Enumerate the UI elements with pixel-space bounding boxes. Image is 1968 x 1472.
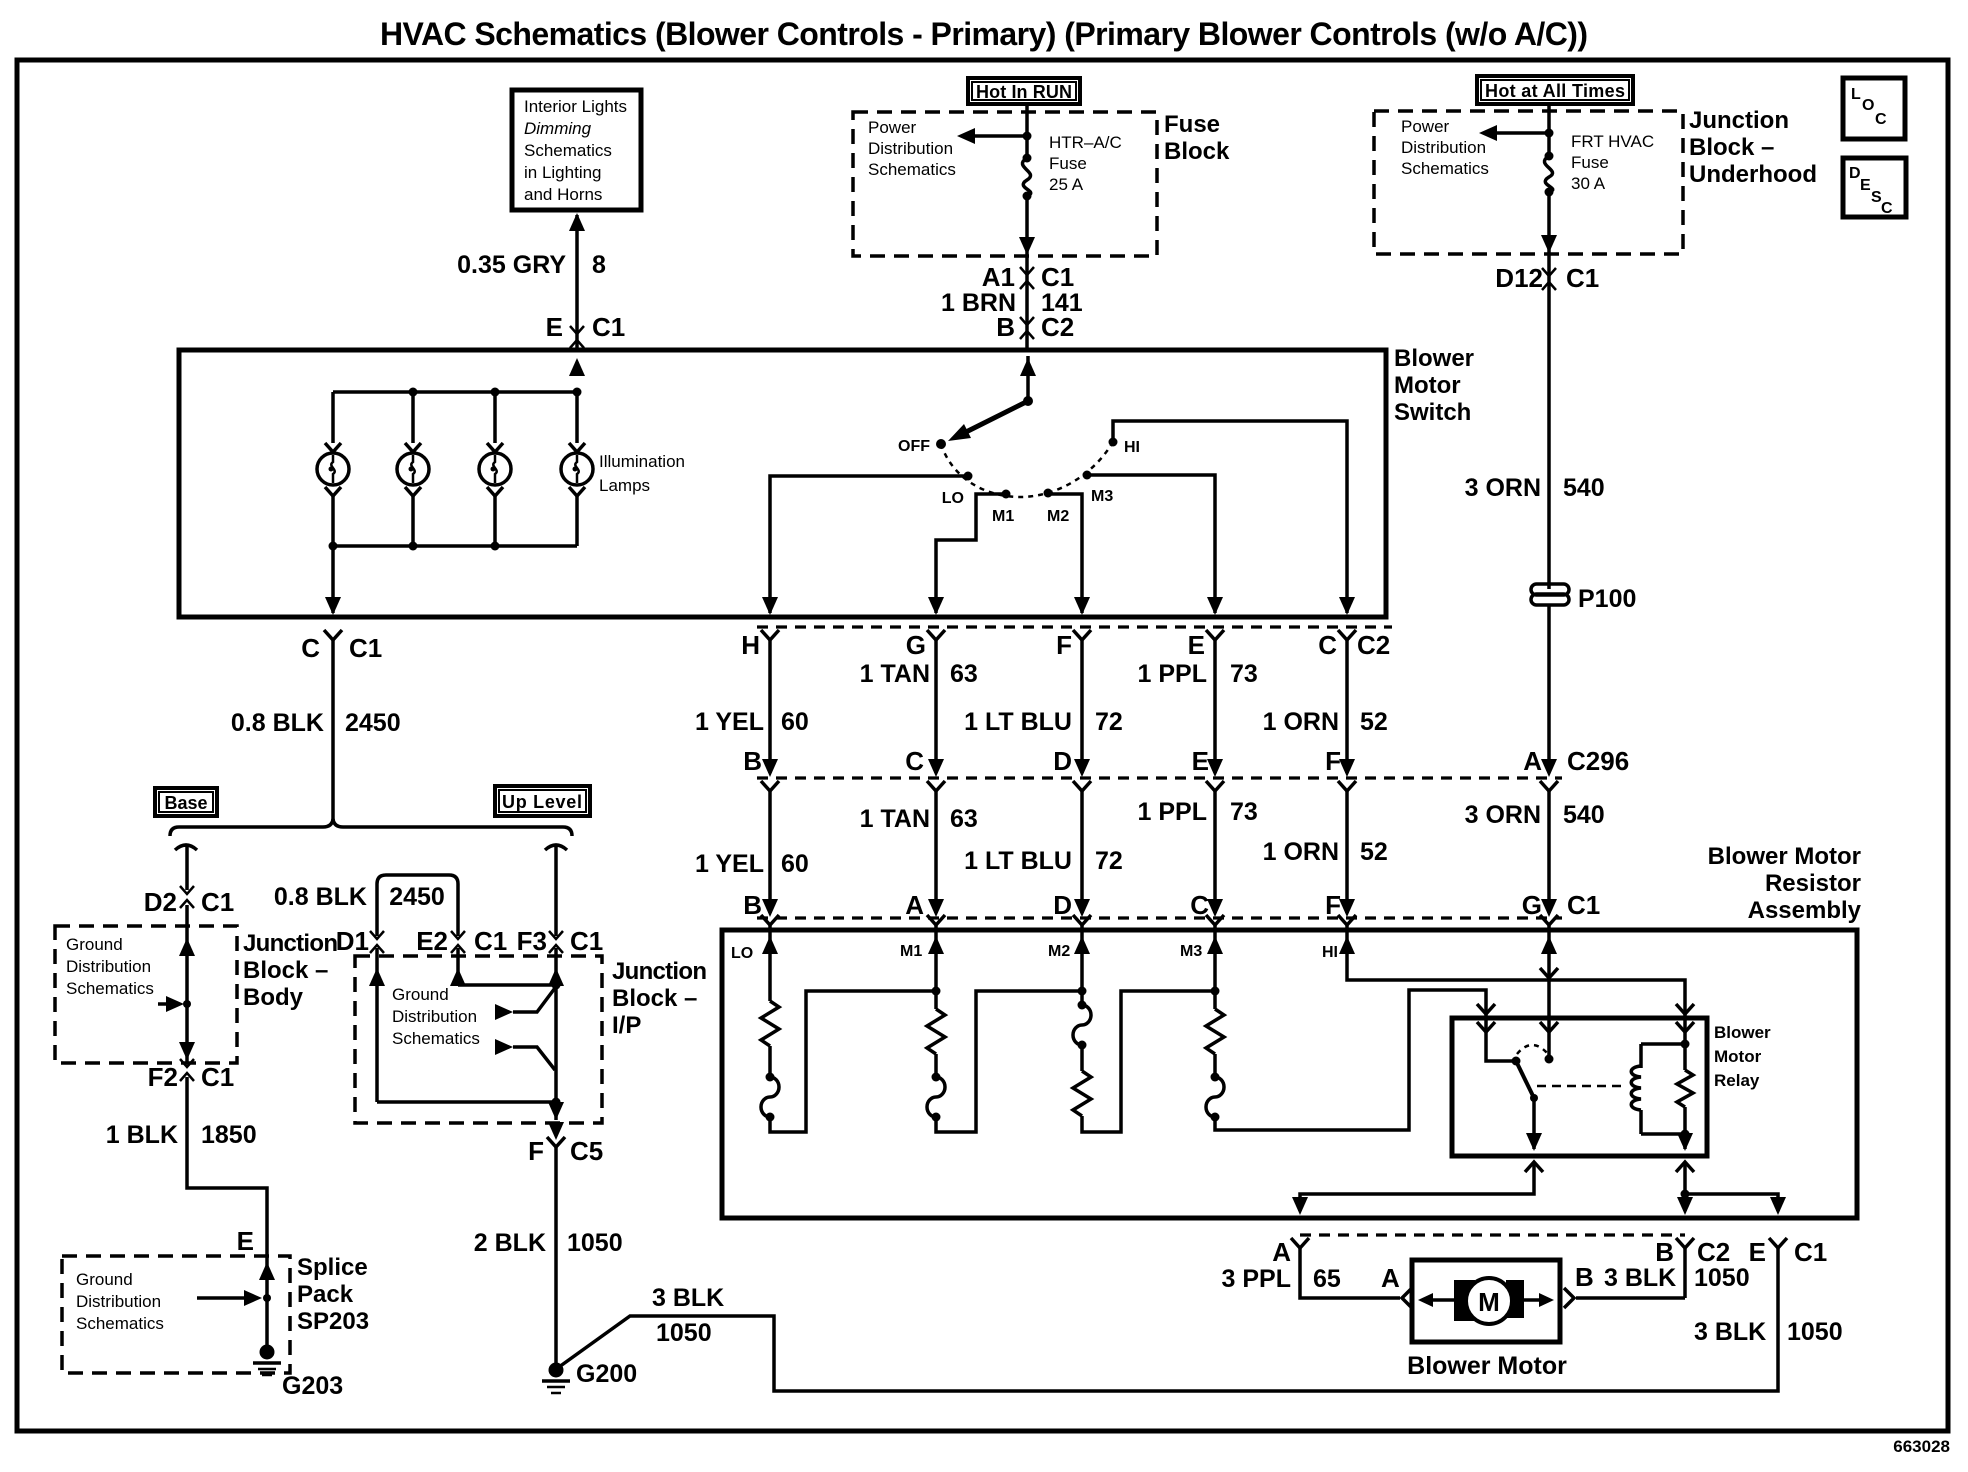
svg-text:F: F [1056,630,1072,660]
svg-text:C2: C2 [1357,630,1390,660]
svg-text:SP203: SP203 [297,1308,369,1335]
svg-text:Up Level: Up Level [502,792,582,812]
svg-text:D: D [1849,165,1861,182]
svg-text:Base: Base [164,793,207,813]
svg-text:Block –: Block – [1689,134,1774,161]
svg-text:663028: 663028 [1893,1437,1950,1456]
svg-text:Illumination: Illumination [599,452,685,471]
svg-text:C: C [1318,630,1337,660]
svg-text:Assembly: Assembly [1748,897,1862,924]
svg-text:G: G [906,630,926,660]
svg-text:1 ORN: 1 ORN [1263,708,1339,736]
svg-text:Distribution: Distribution [392,1007,477,1026]
svg-text:LO: LO [731,945,753,962]
svg-text:FRT HVAC: FRT HVAC [1571,132,1654,151]
svg-text:52: 52 [1360,838,1388,866]
svg-text:and Horns: and Horns [524,185,602,204]
svg-text:Blower: Blower [1394,345,1474,372]
svg-text:A1: A1 [982,262,1015,292]
svg-text:1 BLK: 1 BLK [106,1121,178,1149]
svg-text:F: F [1325,746,1341,776]
svg-text:1850: 1850 [201,1121,257,1149]
svg-text:C1: C1 [474,926,507,956]
svg-text:F: F [528,1136,544,1166]
svg-text:Schematics: Schematics [392,1029,480,1048]
svg-text:3 BLK: 3 BLK [1604,1264,1676,1292]
svg-text:Blower: Blower [1714,1023,1771,1042]
svg-text:Distribution: Distribution [66,957,151,976]
svg-text:2450: 2450 [389,883,445,911]
svg-text:D: D [1053,890,1072,920]
svg-text:H: H [741,630,760,660]
svg-text:1 YEL: 1 YEL [695,850,764,878]
svg-text:Fuse: Fuse [1164,111,1220,138]
svg-text:73: 73 [1230,660,1258,688]
svg-text:2 BLK: 2 BLK [474,1229,546,1257]
svg-text:M3: M3 [1091,488,1113,505]
svg-text:M1: M1 [900,943,922,960]
svg-text:Motor: Motor [1714,1047,1762,1066]
svg-text:M3: M3 [1180,943,1202,960]
svg-text:60: 60 [781,708,809,736]
svg-text:Distribution: Distribution [868,139,953,158]
svg-text:G: G [1522,890,1542,920]
svg-text:G203: G203 [282,1372,343,1400]
svg-text:HI: HI [1322,944,1338,961]
svg-text:Junction: Junction [612,958,707,985]
svg-text:D1: D1 [336,926,369,956]
svg-text:540: 540 [1563,474,1605,502]
svg-text:73: 73 [1230,798,1258,826]
svg-text:A: A [1272,1237,1291,1267]
svg-text:Relay: Relay [1714,1071,1760,1090]
svg-text:Schematics: Schematics [1401,159,1489,178]
svg-text:Body: Body [243,984,304,1011]
svg-text:M2: M2 [1047,508,1069,525]
svg-text:C2: C2 [1041,312,1074,342]
svg-text:E: E [1860,177,1871,194]
svg-text:Schematics: Schematics [76,1314,164,1333]
svg-text:in Lighting: in Lighting [524,163,602,182]
svg-text:E2: E2 [416,926,448,956]
svg-text:Dimming: Dimming [524,119,592,138]
svg-text:Hot at All Times: Hot at All Times [1485,81,1625,101]
svg-text:Junction: Junction [243,930,338,957]
svg-text:63: 63 [950,805,978,833]
svg-text:E: E [237,1226,254,1256]
svg-text:C: C [905,746,924,776]
svg-text:C1: C1 [1794,1237,1827,1267]
svg-text:D12: D12 [1495,263,1543,293]
svg-text:2450: 2450 [345,709,401,737]
svg-text:C1: C1 [1567,890,1600,920]
svg-text:E: E [546,312,563,342]
svg-text:1 PPL: 1 PPL [1138,660,1207,688]
svg-text:C296: C296 [1567,746,1629,776]
svg-text:F2: F2 [148,1062,178,1092]
svg-text:60: 60 [781,850,809,878]
svg-text:Motor: Motor [1394,372,1461,399]
svg-text:8: 8 [592,251,606,279]
svg-text:C1: C1 [592,312,625,342]
svg-text:72: 72 [1095,708,1123,736]
svg-text:65: 65 [1313,1265,1341,1293]
svg-text:Distribution: Distribution [76,1292,161,1311]
svg-text:Fuse: Fuse [1049,154,1087,173]
svg-text:1050: 1050 [567,1229,623,1257]
svg-text:25 A: 25 A [1049,175,1084,194]
svg-text:C: C [1881,200,1893,217]
svg-text:M: M [1478,1287,1500,1317]
svg-text:B: B [996,312,1015,342]
svg-text:3 PPL: 3 PPL [1222,1265,1291,1293]
svg-text:Resistor: Resistor [1765,870,1861,897]
svg-text:C5: C5 [570,1136,603,1166]
svg-text:0.8 BLK: 0.8 BLK [231,709,324,737]
svg-text:F3: F3 [517,926,547,956]
svg-text:Block: Block [1164,138,1230,165]
svg-text:E: E [1192,746,1209,776]
svg-text:Pack: Pack [297,1281,354,1308]
svg-text:1 ORN: 1 ORN [1263,838,1339,866]
svg-text:1050: 1050 [1694,1264,1750,1292]
svg-text:3 ORN: 3 ORN [1465,801,1541,829]
svg-text:1050: 1050 [656,1319,712,1347]
svg-text:30 A: 30 A [1571,174,1606,193]
svg-text:B: B [743,890,762,920]
svg-text:Lamps: Lamps [599,476,650,495]
svg-text:1 PPL: 1 PPL [1138,798,1207,826]
svg-text:C1: C1 [201,887,234,917]
svg-text:I/P: I/P [612,1012,641,1039]
svg-text:Block –: Block – [612,985,697,1012]
svg-text:C1: C1 [349,633,382,663]
svg-text:3 BLK: 3 BLK [1694,1318,1766,1346]
svg-text:HTR–A/C: HTR–A/C [1049,133,1122,152]
svg-text:C1: C1 [1041,262,1074,292]
svg-text:L: L [1851,86,1861,103]
svg-text:A: A [905,890,924,920]
svg-text:B: B [1655,1237,1674,1267]
svg-text:C1: C1 [570,926,603,956]
svg-text:HVAC Schematics (Blower Contro: HVAC Schematics (Blower Controls - Prima… [380,16,1588,52]
svg-text:Schematics: Schematics [66,979,154,998]
svg-text:1050: 1050 [1787,1318,1843,1346]
svg-text:E: E [1188,630,1205,660]
svg-text:540: 540 [1563,801,1605,829]
svg-text:HI: HI [1124,439,1140,456]
svg-text:Hot In RUN: Hot In RUN [976,82,1072,102]
svg-text:B: B [1575,1262,1594,1292]
svg-text:M2: M2 [1048,943,1070,960]
svg-text:Schematics: Schematics [524,141,612,160]
svg-text:52: 52 [1360,708,1388,736]
svg-text:A: A [1523,746,1542,776]
svg-text:C1: C1 [1566,263,1599,293]
svg-text:Blower Motor: Blower Motor [1708,843,1861,870]
svg-text:1 LT BLU: 1 LT BLU [964,847,1072,875]
svg-text:LO: LO [942,490,964,507]
svg-text:Distribution: Distribution [1401,138,1486,157]
svg-text:C: C [301,633,320,663]
svg-text:Ground: Ground [392,985,449,1004]
svg-text:C2: C2 [1697,1237,1730,1267]
svg-text:1 YEL: 1 YEL [695,708,764,736]
svg-text:Underhood: Underhood [1689,161,1817,188]
svg-text:0.35 GRY: 0.35 GRY [457,251,566,279]
svg-text:Schematics: Schematics [868,160,956,179]
svg-text:D2: D2 [144,887,177,917]
svg-text:72: 72 [1095,847,1123,875]
svg-text:Power: Power [868,118,917,137]
svg-text:E: E [1749,1237,1766,1267]
svg-text:Switch: Switch [1394,399,1471,426]
svg-text:Ground: Ground [66,935,123,954]
svg-text:Splice: Splice [297,1254,368,1281]
svg-text:Power: Power [1401,117,1450,136]
svg-text:Block –: Block – [243,957,328,984]
svg-text:P100: P100 [1578,585,1636,613]
svg-text:1 TAN: 1 TAN [860,805,930,833]
svg-text:A: A [1381,1263,1400,1293]
svg-text:63: 63 [950,660,978,688]
svg-text:Junction: Junction [1689,107,1789,134]
svg-text:1 LT BLU: 1 LT BLU [964,708,1072,736]
svg-text:B: B [743,746,762,776]
svg-text:3 BLK: 3 BLK [652,1284,724,1312]
svg-text:Fuse: Fuse [1571,153,1609,172]
svg-text:OFF: OFF [898,438,930,455]
svg-text:Ground: Ground [76,1270,133,1289]
svg-text:O: O [1862,97,1874,114]
svg-text:Blower Motor: Blower Motor [1407,1352,1567,1380]
svg-text:C: C [1875,111,1887,128]
svg-text:3 ORN: 3 ORN [1465,474,1541,502]
svg-text:G200: G200 [576,1360,637,1388]
svg-text:Interior Lights: Interior Lights [524,97,627,116]
svg-text:M1: M1 [992,508,1014,525]
svg-text:0.8 BLK: 0.8 BLK [274,883,367,911]
svg-text:D: D [1053,746,1072,776]
svg-text:C1: C1 [201,1062,234,1092]
svg-text:1 TAN: 1 TAN [860,660,930,688]
